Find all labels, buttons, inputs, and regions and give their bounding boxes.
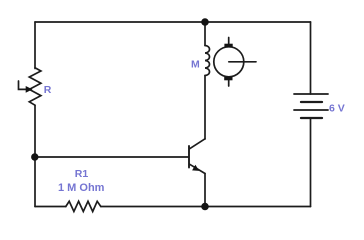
battery B1 plate 2 short (-) [301, 101, 322, 103]
transistor Q1 emitter diagonal [190, 164, 206, 173]
motor M coil [205, 46, 210, 76]
motor M top brush [224, 44, 232, 47]
resistor R1 zigzag [66, 201, 101, 211]
transistor Q1 emitter arrowhead [192, 165, 199, 171]
resistor R wiper arrowhead [26, 86, 33, 93]
motor M bottom brush [224, 77, 232, 80]
battery B1 plate 1 long (+) [294, 93, 328, 95]
svg-text:R: R [44, 84, 52, 96]
wire bottom left segment [35, 206, 66, 208]
wire top rail [35, 21, 311, 23]
wire left dot to bottom corner [34, 157, 36, 207]
node junction dot bottom [201, 203, 209, 211]
wire base from node to transistor [35, 156, 189, 158]
svg-text:R1: R1 [75, 168, 89, 180]
transistor Q1 collector diagonal [190, 139, 206, 149]
wire left lower [34, 105, 36, 157]
motor M top brush stub [228, 38, 230, 45]
wire bottom middle segment [101, 206, 205, 208]
node junction dot top [201, 18, 209, 26]
wire emitter down [204, 174, 206, 207]
wire motor branch top [204, 22, 206, 46]
wire bottom right segment [205, 206, 311, 208]
svg-text:1 M Ohm: 1 M Ohm [58, 182, 105, 194]
wire left upper [34, 22, 36, 69]
wire battery top [310, 22, 312, 94]
wire battery bottom [310, 118, 312, 207]
battery B1 plate 3 long (+) [294, 109, 328, 111]
svg-text:6 V: 6 V [329, 103, 345, 115]
transistor Q1 base bar [188, 146, 190, 168]
wire collector branch [204, 76, 206, 140]
motor M body circle [214, 47, 244, 77]
motor M bottom brush stub [228, 80, 230, 86]
svg-text:M: M [191, 59, 200, 71]
resistor R wiper arrow [19, 81, 28, 89]
node junction dot left [31, 153, 38, 160]
motor M shaft [229, 61, 256, 63]
battery B1 plate 4 short (-) [301, 117, 322, 119]
resistor R (variable) zigzag [29, 68, 41, 105]
